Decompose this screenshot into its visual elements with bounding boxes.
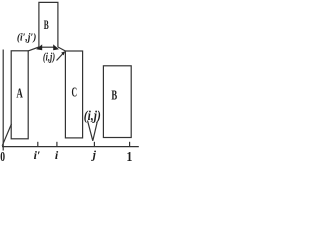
svg-text:(i,j): (i,j) — [43, 49, 55, 63]
svg-text:A: A — [16, 87, 23, 102]
arrow shaft from center (i,j) label — [57, 54, 64, 61]
svg-text:(i,j): (i,j) — [84, 109, 101, 124]
svg-text:i′: i′ — [34, 148, 41, 162]
svg-text:B: B — [111, 89, 117, 104]
diagonal at origin — [2, 124, 11, 146]
svg-text:(i′,j′): (i′,j′) — [17, 33, 37, 44]
tick j — [93, 142, 95, 147]
connector top-box BL to A corner — [28, 47, 39, 51]
rect A — [11, 51, 28, 139]
tick 1 — [129, 142, 131, 147]
svg-text:B: B — [44, 17, 49, 32]
x axis — [2, 146, 139, 148]
V arrow above j tick — [88, 121, 98, 141]
double arrow shaft under top box — [42, 46, 54, 48]
tick i — [56, 142, 58, 147]
right arrowhead of double arrow — [53, 44, 59, 50]
svg-text:C: C — [72, 86, 78, 101]
rect C — [65, 51, 82, 138]
rect B right — [103, 66, 131, 138]
svg-text:0: 0 — [0, 149, 5, 164]
arrowhead at C top-left corner — [61, 51, 65, 55]
y axis — [2, 50, 4, 151]
left arrowhead of double arrow — [36, 44, 42, 50]
top box B (open bottom) — [39, 2, 58, 47]
tick i' — [37, 142, 39, 147]
connector top-box BR to C corner — [58, 47, 66, 51]
svg-text:1: 1 — [126, 150, 132, 165]
